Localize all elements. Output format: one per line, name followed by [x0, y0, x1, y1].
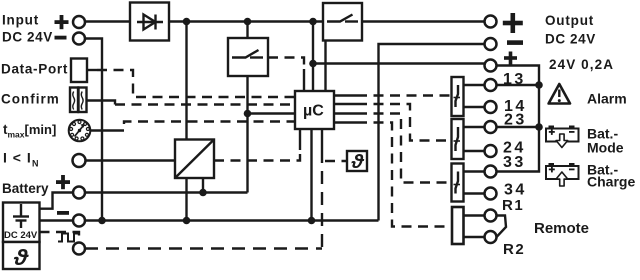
svg-text:23: 23 — [504, 112, 527, 129]
dashed uC to remote — [357, 123, 451, 227]
plus sign output — [503, 13, 523, 33]
wire remote to R1 — [464, 214, 485, 216]
data-port box — [71, 59, 87, 83]
node dot aux — [309, 60, 317, 68]
battery mode icon — [546, 126, 579, 148]
label bat charge — [587, 162, 635, 190]
svg-text:ϑ: ϑ — [13, 245, 30, 270]
uC top-left pin — [303, 69, 305, 91]
plus sign battery — [56, 175, 70, 189]
label Battery — [2, 181, 49, 196]
dashed stub to temp sensor — [325, 160, 347, 162]
label 24 — [503, 140, 526, 157]
terminal 33 — [485, 166, 497, 178]
svg-text:N: N — [32, 159, 39, 169]
wire K1 to 14 — [464, 106, 485, 108]
uC bottom-right pin — [321, 129, 323, 150]
svg-text:ϑ: ϑ — [350, 152, 365, 173]
wire K2 to 23 — [464, 126, 485, 128]
terminal R2 — [485, 231, 497, 243]
wire aux plus line — [313, 62, 485, 64]
svg-text:Charge: Charge — [587, 174, 635, 190]
terminal output plus — [485, 16, 497, 28]
wire minus bus — [85, 219, 379, 221]
wire node2 to switch S1 — [246, 22, 248, 39]
dashed uC to service — [321, 150, 323, 249]
node dot converter battery — [199, 189, 207, 197]
terminal aux plus — [485, 60, 497, 72]
svg-text:R1: R1 — [502, 197, 524, 214]
label 24V aux — [549, 57, 614, 72]
pulse symbol — [58, 234, 78, 242]
wire converter to minus bus — [185, 178, 187, 221]
node dot top3 — [309, 18, 317, 26]
wire confirm stub — [87, 101, 116, 105]
label R1 — [502, 197, 524, 214]
svg-text:DC 24V: DC 24V — [2, 30, 53, 45]
wire S1 to battery plus line — [246, 76, 248, 193]
dashed data-port to uC — [97, 70, 295, 97]
temp sensor U2 — [347, 151, 367, 173]
relay contact K3 — [452, 164, 464, 202]
dashed uC to relay K2 — [357, 104, 451, 141]
uC right pin1 — [334, 94, 357, 96]
terminal 14 — [485, 101, 497, 113]
uC bottom-left pin — [299, 129, 301, 150]
wire battery minus to box — [40, 219, 74, 221]
wire battery plus line — [85, 191, 248, 193]
minus sign battery — [57, 211, 69, 215]
uC right pin4 — [334, 121, 357, 123]
svg-text:Alarm: Alarm — [587, 91, 627, 107]
svg-text:DC 24V: DC 24V — [4, 230, 38, 241]
terminal input plus — [73, 16, 85, 28]
wire R1 R2 bracket — [497, 216, 507, 238]
terminal service — [73, 243, 85, 255]
remote block K4 — [452, 207, 464, 244]
label Data-Port — [1, 62, 68, 77]
terminal 34 — [485, 188, 497, 200]
wire knob stub — [91, 129, 115, 131]
node dot S1 branch — [244, 110, 252, 118]
svg-text:Confirm: Confirm — [1, 92, 60, 107]
svg-text:13: 13 — [503, 71, 526, 88]
svg-text:DC 24V: DC 24V — [545, 32, 596, 47]
microcontroller U1 — [295, 91, 334, 129]
wire top bus right — [362, 20, 485, 23]
svg-text:Data-Port: Data-Port — [1, 62, 68, 77]
terminal R1 — [485, 210, 497, 222]
wire input minus rail — [85, 39, 102, 221]
diode D1 — [130, 3, 169, 41]
converter T1 — [175, 140, 214, 179]
battery module BT1 — [3, 203, 40, 243]
label Confirm — [1, 92, 60, 107]
minus sign output — [507, 40, 523, 45]
switch S2 — [323, 3, 362, 41]
svg-text:33: 33 — [503, 154, 526, 171]
uC right pin2 — [334, 103, 357, 105]
label 33 — [503, 154, 526, 171]
label Input — [2, 13, 53, 45]
wire converter to battery plus — [202, 178, 204, 193]
wire minus rail vertical — [379, 44, 485, 221]
svg-text:R2: R2 — [503, 241, 525, 258]
label Alarm — [587, 91, 627, 107]
plus sign aux — [504, 52, 517, 65]
wire K3 to 34 — [464, 192, 485, 194]
label 13 — [503, 71, 526, 88]
node dot top2 — [244, 18, 252, 26]
dashed link S1 to uC — [268, 58, 304, 70]
battery charge icon — [546, 163, 579, 186]
wire aux feeder — [497, 66, 540, 172]
wire K3 to 33 — [464, 170, 485, 172]
wire battery plus to box — [40, 193, 74, 209]
svg-text:tmax[min]: tmax[min] — [3, 122, 56, 140]
wire K1 to 13 — [464, 84, 485, 86]
wire 23 extension — [497, 126, 540, 128]
minus sign input — [55, 36, 67, 40]
terminal 13 — [485, 79, 497, 91]
timer knob P1 — [69, 120, 91, 142]
node dot feeder 13 — [535, 81, 543, 89]
plus sign input — [55, 15, 69, 29]
terminal battery plus — [73, 187, 85, 199]
switch S1 — [228, 38, 268, 76]
label current — [3, 150, 39, 169]
svg-text:I < I: I < I — [3, 150, 32, 166]
wire S2 to uC pin — [324, 41, 326, 92]
uC bottom-center pin to minus bus — [310, 129, 312, 221]
label Remote — [534, 220, 589, 237]
wire current to converter — [86, 159, 176, 161]
label 14 — [504, 98, 527, 115]
wire node3 to uC — [312, 22, 314, 92]
relay contact K2 — [452, 119, 464, 159]
svg-text:Output: Output — [545, 13, 594, 28]
wire S1 branch to uC — [248, 112, 296, 114]
svg-text:Battery: Battery — [2, 181, 49, 196]
node dot minus3 — [308, 217, 316, 225]
label R2 — [503, 241, 525, 258]
label 34 — [504, 182, 527, 199]
confirm buttons — [70, 88, 87, 113]
relay contact K1 — [452, 77, 464, 116]
dashed confirm to uC — [115, 103, 295, 105]
dashed uC to relay K3 — [357, 114, 451, 183]
dashed battery to service terminal — [40, 232, 80, 243]
uC right pin3 — [334, 112, 357, 114]
svg-text:Mode: Mode — [587, 140, 624, 156]
dashed knob to uC — [114, 122, 295, 131]
node dot minus1 — [98, 217, 106, 225]
wire data-port stub — [87, 69, 97, 71]
wire node1 to converter — [185, 22, 187, 140]
terminal current — [73, 154, 86, 167]
node dot minus2 — [183, 217, 191, 225]
terminal input minus — [73, 33, 85, 45]
dashed uC to relay K1 — [357, 94, 451, 96]
battery temp sensor box — [3, 242, 40, 270]
node dot feeder 23 — [535, 123, 543, 131]
wire remote to R2 — [464, 236, 485, 238]
node dot top1 — [183, 18, 191, 26]
dashed converter to uC pin — [214, 150, 300, 161]
terminal output minus — [485, 38, 497, 50]
wire K2 to 24 — [464, 150, 485, 152]
dashed service line — [85, 247, 322, 249]
alarm triangle — [549, 84, 570, 104]
label 23 — [504, 112, 527, 129]
terminal 24 — [485, 145, 497, 157]
label bat mode — [587, 126, 624, 156]
wire top bus left — [85, 20, 130, 23]
terminal battery minus — [73, 215, 85, 227]
svg-text:Input: Input — [2, 13, 39, 28]
label tmax — [3, 122, 56, 140]
wire top bus mid — [169, 20, 323, 23]
svg-text:µC: µC — [303, 103, 324, 120]
svg-text:34: 34 — [504, 182, 527, 199]
svg-text:Remote: Remote — [534, 220, 589, 237]
svg-text:24V 0,2A: 24V 0,2A — [549, 57, 614, 72]
wire 13 extension — [497, 84, 540, 86]
label output — [545, 13, 596, 47]
terminal 23 — [485, 121, 497, 133]
